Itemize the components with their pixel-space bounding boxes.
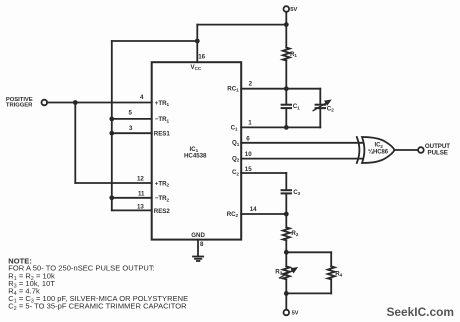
svg-text:IC2: IC2 <box>375 143 384 149</box>
svg-text:12: 12 <box>137 175 144 182</box>
svg-text:RES1: RES1 <box>154 131 171 138</box>
svg-text:16: 16 <box>198 53 205 60</box>
svg-text:PULSE: PULSE <box>428 149 448 156</box>
svg-text:HC4538: HC4538 <box>184 152 207 159</box>
svg-text:4: 4 <box>140 94 144 101</box>
svg-text:6: 6 <box>246 136 250 143</box>
svg-text:8: 8 <box>200 241 204 248</box>
svg-text:15: 15 <box>245 166 252 173</box>
svg-text:RES2: RES2 <box>154 208 171 215</box>
svg-text:11: 11 <box>138 191 145 198</box>
svg-text:3: 3 <box>129 125 133 132</box>
svg-text:10: 10 <box>245 151 252 158</box>
svg-text:5V: 5V <box>292 311 299 317</box>
svg-text:¼HC86: ¼HC86 <box>368 148 389 155</box>
svg-text:5: 5 <box>129 110 133 117</box>
svg-text:14: 14 <box>250 206 257 213</box>
svg-text:5V: 5V <box>290 7 297 13</box>
svg-text:GND: GND <box>191 232 205 239</box>
svg-text:1: 1 <box>248 120 252 127</box>
svg-text:TRIGGER: TRIGGER <box>6 102 33 108</box>
svg-text:2: 2 <box>249 80 253 87</box>
svg-text:SeekIC.com: SeekIC.com <box>387 305 454 319</box>
svg-text:13: 13 <box>137 204 144 211</box>
svg-text:C2 = 5- TO 35-pF CERAMIC TRIMM: C2 = 5- TO 35-pF CERAMIC TRIMMER CAPACIT… <box>8 302 187 312</box>
